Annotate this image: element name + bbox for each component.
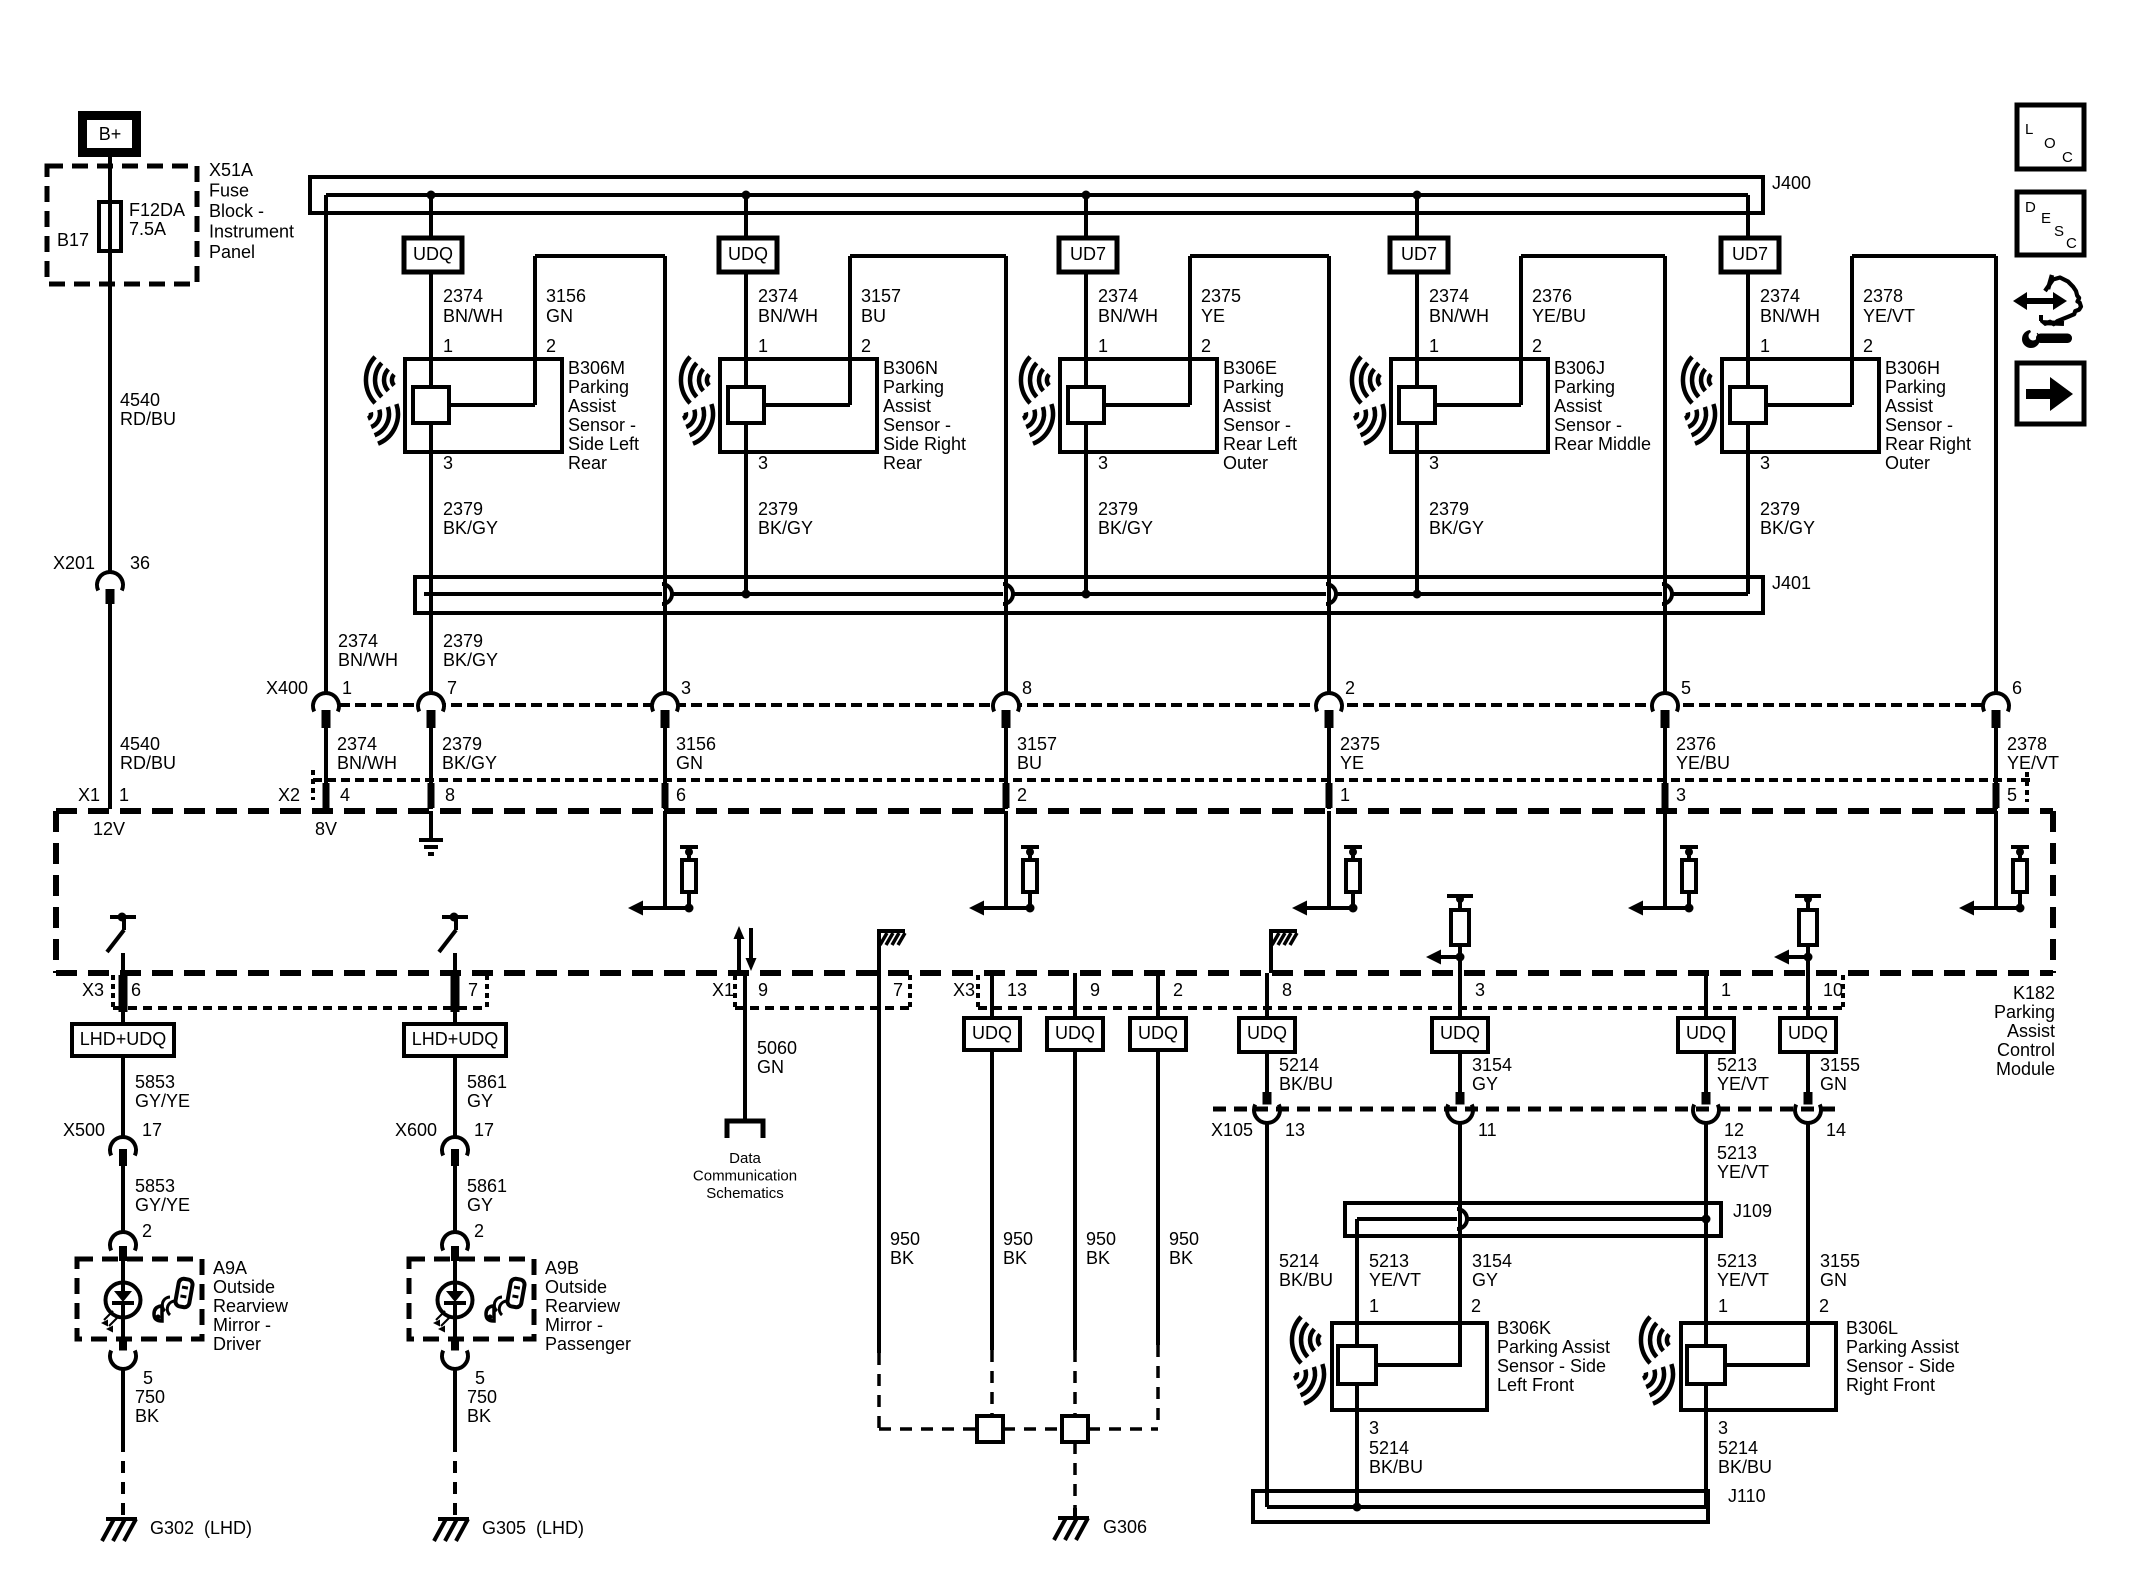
svg-text:(LHD): (LHD) [204, 1518, 252, 1538]
svg-text:Rearview: Rearview [545, 1296, 621, 1316]
svg-text:E: E [2041, 210, 2051, 227]
svg-text:5853: 5853 [135, 1176, 175, 1196]
svg-text:13: 13 [1285, 1120, 1305, 1140]
svg-text:5214: 5214 [1718, 1438, 1758, 1458]
svg-text:BK: BK [1003, 1248, 1027, 1268]
svg-text:950: 950 [890, 1229, 920, 1249]
svg-text:Rearview: Rearview [213, 1296, 289, 1316]
svg-text:GN: GN [546, 306, 573, 326]
svg-text:S: S [2054, 223, 2064, 240]
svg-text:J110: J110 [1728, 1486, 1766, 1506]
svg-text:LHD+UDQ: LHD+UDQ [80, 1029, 167, 1049]
svg-text:12: 12 [1724, 1120, 1744, 1140]
svg-text:Sensor -: Sensor - [883, 415, 951, 435]
svg-text:10: 10 [1823, 980, 1843, 1000]
svg-text:2379: 2379 [443, 631, 483, 651]
svg-text:4540: 4540 [120, 390, 160, 410]
svg-text:BK/GY: BK/GY [1098, 518, 1153, 538]
svg-text:BU: BU [861, 306, 886, 326]
svg-text:5214: 5214 [1279, 1251, 1319, 1271]
svg-text:Parking: Parking [1223, 377, 1284, 397]
svg-text:BN/WH: BN/WH [758, 306, 818, 326]
svg-text:2374: 2374 [443, 286, 483, 306]
svg-text:9: 9 [1090, 980, 1100, 1000]
svg-text:1: 1 [1369, 1296, 1379, 1316]
svg-text:X51A: X51A [209, 160, 253, 180]
svg-text:B306E: B306E [1223, 358, 1277, 378]
svg-text:Control: Control [1997, 1040, 2055, 1060]
svg-text:X1: X1 [712, 980, 734, 1000]
svg-text:Mirror -: Mirror - [545, 1315, 603, 1335]
svg-text:Sensor -: Sensor - [568, 415, 636, 435]
svg-text:5: 5 [143, 1368, 153, 1388]
svg-text:BK/BU: BK/BU [1279, 1270, 1333, 1290]
svg-text:4: 4 [340, 785, 350, 805]
svg-text:Assist: Assist [568, 396, 616, 416]
svg-text:UDQ: UDQ [728, 244, 768, 264]
svg-text:B+: B+ [99, 124, 122, 144]
svg-text:2379: 2379 [442, 734, 482, 754]
svg-text:2: 2 [142, 1221, 152, 1241]
svg-text:BK/BU: BK/BU [1369, 1457, 1423, 1477]
svg-text:BN/WH: BN/WH [1098, 306, 1158, 326]
svg-text:1: 1 [758, 336, 768, 356]
svg-text:8: 8 [445, 785, 455, 805]
svg-text:Parking: Parking [1994, 1002, 2055, 1022]
svg-text:F12DA: F12DA [129, 200, 185, 220]
svg-text:YE: YE [1340, 753, 1364, 773]
svg-text:Parking Assist: Parking Assist [1846, 1337, 1959, 1357]
svg-text:5213: 5213 [1717, 1055, 1757, 1075]
svg-text:A9A: A9A [213, 1258, 247, 1278]
svg-text:X400: X400 [266, 678, 308, 698]
svg-text:YE/VT: YE/VT [1717, 1162, 1769, 1182]
svg-text:GY: GY [467, 1091, 493, 1111]
svg-text:Assist: Assist [883, 396, 931, 416]
svg-text:2: 2 [474, 1221, 484, 1241]
svg-text:2376: 2376 [1532, 286, 1572, 306]
svg-text:3: 3 [1760, 453, 1770, 473]
svg-text:J109: J109 [1733, 1201, 1772, 1221]
svg-text:X3: X3 [82, 980, 104, 1000]
svg-text:Parking: Parking [1885, 377, 1946, 397]
svg-text:2374: 2374 [1098, 286, 1138, 306]
svg-text:Outside: Outside [545, 1277, 607, 1297]
svg-text:1: 1 [1718, 1296, 1728, 1316]
svg-text:2379: 2379 [1760, 499, 1800, 519]
svg-text:BU: BU [1017, 753, 1042, 773]
svg-text:B306M: B306M [568, 358, 625, 378]
svg-text:UDQ: UDQ [1788, 1023, 1828, 1043]
svg-text:5213: 5213 [1717, 1143, 1757, 1163]
svg-text:Parking: Parking [883, 377, 944, 397]
svg-text:5853: 5853 [135, 1072, 175, 1092]
svg-text:4540: 4540 [120, 734, 160, 754]
svg-text:2374: 2374 [1760, 286, 1800, 306]
svg-text:5214: 5214 [1369, 1438, 1409, 1458]
svg-text:X2: X2 [278, 785, 300, 805]
svg-text:5: 5 [475, 1368, 485, 1388]
svg-text:B306N: B306N [883, 358, 938, 378]
svg-text:Sensor -: Sensor - [1223, 415, 1291, 435]
svg-text:2378: 2378 [2007, 734, 2047, 754]
svg-text:Rear Middle: Rear Middle [1554, 434, 1651, 454]
svg-text:1: 1 [1721, 980, 1731, 1000]
svg-text:5: 5 [1681, 678, 1691, 698]
svg-text:A9B: A9B [545, 1258, 579, 1278]
svg-text:1: 1 [1098, 336, 1108, 356]
svg-text:Fuse: Fuse [209, 181, 249, 201]
svg-text:3154: 3154 [1472, 1055, 1512, 1075]
svg-text:7: 7 [893, 980, 903, 1000]
svg-text:3157: 3157 [861, 286, 901, 306]
svg-text:2376: 2376 [1676, 734, 1716, 754]
svg-text:Panel: Panel [209, 242, 255, 262]
svg-text:2: 2 [1532, 336, 1542, 356]
svg-text:GY/YE: GY/YE [135, 1195, 190, 1215]
svg-text:B17: B17 [57, 230, 89, 250]
svg-text:Outer: Outer [1885, 453, 1930, 473]
svg-text:D: D [2025, 199, 2036, 216]
svg-text:2378: 2378 [1863, 286, 1903, 306]
svg-text:2: 2 [1863, 336, 1873, 356]
svg-text:B306K: B306K [1497, 1318, 1551, 1338]
svg-text:17: 17 [474, 1120, 494, 1140]
svg-text:Rear: Rear [568, 453, 607, 473]
svg-text:950: 950 [1086, 1229, 1116, 1249]
svg-text:RD/BU: RD/BU [120, 753, 176, 773]
svg-text:YE/VT: YE/VT [2007, 753, 2059, 773]
svg-text:GY: GY [1472, 1074, 1498, 1094]
svg-text:Mirror -: Mirror - [213, 1315, 271, 1335]
svg-text:UD7: UD7 [1401, 244, 1437, 264]
svg-text:14: 14 [1826, 1120, 1846, 1140]
svg-text:2379: 2379 [1098, 499, 1138, 519]
svg-text:17: 17 [142, 1120, 162, 1140]
svg-text:2: 2 [1201, 336, 1211, 356]
svg-text:Instrument: Instrument [209, 222, 294, 242]
svg-text:G302: G302 [150, 1518, 194, 1538]
svg-text:O: O [2044, 135, 2056, 152]
svg-text:UDQ: UDQ [413, 244, 453, 264]
svg-text:Assist: Assist [1554, 396, 1602, 416]
svg-text:BK: BK [1169, 1248, 1193, 1268]
svg-text:GY: GY [1472, 1270, 1498, 1290]
svg-text:G306: G306 [1103, 1517, 1147, 1537]
svg-text:UD7: UD7 [1070, 244, 1106, 264]
svg-text:3: 3 [1369, 1418, 1379, 1438]
svg-text:C: C [2062, 149, 2073, 166]
svg-text:2374: 2374 [338, 631, 378, 651]
svg-text:Sensor -: Sensor - [1885, 415, 1953, 435]
svg-text:UDQ: UDQ [1686, 1023, 1726, 1043]
svg-text:BK/BU: BK/BU [1718, 1457, 1772, 1477]
svg-text:G305: G305 [482, 1518, 526, 1538]
svg-text:3156: 3156 [676, 734, 716, 754]
svg-text:X1: X1 [78, 785, 100, 805]
svg-text:UD7: UD7 [1732, 244, 1768, 264]
svg-text:5861: 5861 [467, 1176, 507, 1196]
svg-text:2374: 2374 [337, 734, 377, 754]
svg-text:BK/BU: BK/BU [1279, 1074, 1333, 1094]
svg-text:BK/GY: BK/GY [443, 518, 498, 538]
svg-text:UDQ: UDQ [1440, 1023, 1480, 1043]
svg-text:C: C [2066, 235, 2077, 252]
svg-text:RD/BU: RD/BU [120, 409, 176, 429]
svg-text:Side Left: Side Left [568, 434, 639, 454]
svg-text:X600: X600 [395, 1120, 437, 1140]
svg-text:BN/WH: BN/WH [338, 650, 398, 670]
svg-text:Rear Right: Rear Right [1885, 434, 1971, 454]
svg-text:5060: 5060 [757, 1038, 797, 1058]
svg-text:1: 1 [1429, 336, 1439, 356]
svg-text:13: 13 [1007, 980, 1027, 1000]
svg-text:7: 7 [468, 980, 478, 1000]
svg-text:3156: 3156 [546, 286, 586, 306]
svg-text:Parking: Parking [1554, 377, 1615, 397]
svg-text:2: 2 [546, 336, 556, 356]
svg-text:2: 2 [1819, 1296, 1829, 1316]
svg-text:3: 3 [1429, 453, 1439, 473]
svg-text:BK: BK [1086, 1248, 1110, 1268]
svg-text:UDQ: UDQ [1055, 1023, 1095, 1043]
svg-text:BN/WH: BN/WH [337, 753, 397, 773]
svg-text:950: 950 [1169, 1229, 1199, 1249]
svg-text:BK/GY: BK/GY [758, 518, 813, 538]
svg-text:2374: 2374 [758, 286, 798, 306]
svg-text:3: 3 [1475, 980, 1485, 1000]
svg-text:Driver: Driver [213, 1334, 261, 1354]
svg-text:5: 5 [2007, 785, 2017, 805]
svg-text:6: 6 [2012, 678, 2022, 698]
svg-text:GN: GN [1820, 1074, 1847, 1094]
svg-text:11: 11 [1478, 1120, 1497, 1140]
svg-text:GY: GY [467, 1195, 493, 1215]
svg-text:12V: 12V [93, 819, 125, 839]
svg-text:2379: 2379 [443, 499, 483, 519]
svg-text:YE/BU: YE/BU [1676, 753, 1730, 773]
svg-text:B306L: B306L [1846, 1318, 1898, 1338]
svg-text:Sensor - Side: Sensor - Side [1497, 1356, 1606, 1376]
svg-text:1: 1 [119, 785, 129, 805]
svg-text:3155: 3155 [1820, 1251, 1860, 1271]
svg-text:5214: 5214 [1279, 1055, 1319, 1075]
svg-text:Rear Left: Rear Left [1223, 434, 1297, 454]
svg-text:3155: 3155 [1820, 1055, 1860, 1075]
svg-text:Parking: Parking [568, 377, 629, 397]
svg-text:Passenger: Passenger [545, 1334, 631, 1354]
svg-text:BK/GY: BK/GY [442, 753, 497, 773]
svg-text:Side Right: Side Right [883, 434, 966, 454]
svg-text:3: 3 [1676, 785, 1686, 805]
svg-text:750: 750 [135, 1387, 165, 1407]
svg-text:2379: 2379 [758, 499, 798, 519]
svg-text:Assist: Assist [2007, 1021, 2055, 1041]
svg-text:GN: GN [757, 1057, 784, 1077]
svg-text:BK/GY: BK/GY [1429, 518, 1484, 538]
svg-text:5213: 5213 [1369, 1251, 1409, 1271]
svg-text:2: 2 [1017, 785, 1027, 805]
svg-text:GN: GN [676, 753, 703, 773]
svg-text:1: 1 [342, 678, 352, 698]
svg-text:LHD+UDQ: LHD+UDQ [412, 1029, 499, 1049]
svg-text:GN: GN [1820, 1270, 1847, 1290]
svg-text:Data: Data [729, 1150, 761, 1167]
svg-text:Sensor - Side: Sensor - Side [1846, 1356, 1955, 1376]
svg-text:7: 7 [447, 678, 457, 698]
svg-text:B306H: B306H [1885, 358, 1940, 378]
svg-text:2: 2 [1471, 1296, 1481, 1316]
svg-text:Communication: Communication [693, 1167, 797, 1184]
svg-text:BN/WH: BN/WH [1760, 306, 1820, 326]
svg-text:8V: 8V [315, 819, 337, 839]
svg-text:BK: BK [467, 1406, 491, 1426]
svg-text:Outside: Outside [213, 1277, 275, 1297]
svg-text:YE/VT: YE/VT [1369, 1270, 1421, 1290]
svg-text:Left Front: Left Front [1497, 1375, 1574, 1395]
svg-text:5861: 5861 [467, 1072, 507, 1092]
svg-text:UDQ: UDQ [972, 1023, 1012, 1043]
svg-text:X500: X500 [63, 1120, 105, 1140]
svg-text:Right Front: Right Front [1846, 1375, 1935, 1395]
svg-text:2: 2 [1345, 678, 1355, 698]
svg-text:BK/GY: BK/GY [1760, 518, 1815, 538]
svg-text:1: 1 [1760, 336, 1770, 356]
svg-text:3154: 3154 [1472, 1251, 1512, 1271]
svg-text:1: 1 [443, 336, 453, 356]
svg-text:2375: 2375 [1201, 286, 1241, 306]
svg-text:YE/VT: YE/VT [1717, 1074, 1769, 1094]
svg-text:1: 1 [1340, 785, 1350, 805]
svg-text:36: 36 [130, 553, 150, 573]
svg-text:BK/GY: BK/GY [443, 650, 498, 670]
svg-text:6: 6 [131, 980, 141, 1000]
svg-text:3: 3 [681, 678, 691, 698]
svg-text:BN/WH: BN/WH [1429, 306, 1489, 326]
svg-text:B306J: B306J [1554, 358, 1605, 378]
svg-text:Assist: Assist [1223, 396, 1271, 416]
svg-text:3: 3 [1098, 453, 1108, 473]
svg-text:2374: 2374 [1429, 286, 1469, 306]
svg-text:7.5A: 7.5A [129, 219, 166, 239]
svg-text:950: 950 [1003, 1229, 1033, 1249]
svg-text:8: 8 [1022, 678, 1032, 698]
svg-text:(LHD): (LHD) [536, 1518, 584, 1538]
svg-text:L: L [2025, 121, 2033, 138]
svg-text:Sensor -: Sensor - [1554, 415, 1622, 435]
svg-text:2: 2 [1173, 980, 1183, 1000]
svg-text:Schematics: Schematics [706, 1185, 784, 1202]
svg-text:Assist: Assist [1885, 396, 1933, 416]
svg-text:GY/YE: GY/YE [135, 1091, 190, 1111]
svg-text:K182: K182 [2013, 983, 2055, 1003]
svg-text:UDQ: UDQ [1138, 1023, 1178, 1043]
svg-text:Rear: Rear [883, 453, 922, 473]
svg-text:9: 9 [758, 980, 768, 1000]
svg-text:2375: 2375 [1340, 734, 1380, 754]
svg-text:BN/WH: BN/WH [443, 306, 503, 326]
svg-text:750: 750 [467, 1387, 497, 1407]
svg-text:X201: X201 [53, 553, 95, 573]
svg-text:X105: X105 [1211, 1120, 1253, 1140]
svg-text:8: 8 [1282, 980, 1292, 1000]
svg-text:3: 3 [758, 453, 768, 473]
svg-text:YE/VT: YE/VT [1717, 1270, 1769, 1290]
svg-text:3157: 3157 [1017, 734, 1057, 754]
svg-text:Parking Assist: Parking Assist [1497, 1337, 1610, 1357]
svg-text:J400: J400 [1772, 173, 1811, 193]
svg-text:3: 3 [443, 453, 453, 473]
svg-text:X3: X3 [953, 980, 975, 1000]
svg-text:BK: BK [135, 1406, 159, 1426]
svg-text:YE/VT: YE/VT [1863, 306, 1915, 326]
svg-text:Block -: Block - [209, 201, 264, 221]
svg-text:Outer: Outer [1223, 453, 1268, 473]
svg-text:2379: 2379 [1429, 499, 1469, 519]
svg-text:5213: 5213 [1717, 1251, 1757, 1271]
svg-text:3: 3 [1718, 1418, 1728, 1438]
svg-text:UDQ: UDQ [1247, 1023, 1287, 1043]
svg-text:2: 2 [861, 336, 871, 356]
svg-text:J401: J401 [1772, 573, 1811, 593]
svg-text:6: 6 [676, 785, 686, 805]
svg-text:Module: Module [1996, 1059, 2055, 1079]
svg-text:YE/BU: YE/BU [1532, 306, 1586, 326]
svg-text:BK: BK [890, 1248, 914, 1268]
svg-text:YE: YE [1201, 306, 1225, 326]
